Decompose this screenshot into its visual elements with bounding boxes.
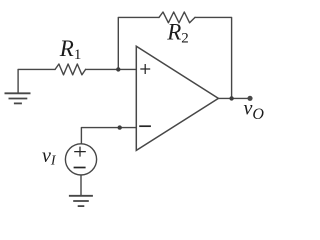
resistor R2 (159, 12, 195, 23)
wire: source bottom to ground (80, 175, 82, 196)
wire: minus input rail (81, 128, 136, 144)
source + polarity mark (74, 147, 86, 157)
ground (under vI) (69, 196, 93, 206)
node: output junction (229, 96, 233, 100)
wire: R2 to output node (right vertical) (195, 17, 232, 98)
svg-text:vI: vI (42, 145, 57, 169)
terminal vO (247, 96, 252, 101)
svg-text:R2: R2 (166, 20, 189, 47)
resistor R1 (55, 64, 86, 75)
node: minus input junction (118, 125, 122, 129)
svg-text:vO: vO (244, 98, 265, 123)
voltage source vI circle (65, 144, 96, 175)
source - polarity mark (74, 167, 86, 169)
wire: R1 to op-amp + input (86, 68, 137, 70)
wire: op-amp output to terminal (218, 97, 250, 99)
ground (left) (5, 93, 31, 103)
wire: ground to R1 (+ input rail left) (18, 69, 55, 93)
wire: feedback left vertical + top to R2 (118, 17, 159, 69)
op-amp inverting input - sign (139, 125, 151, 127)
svg-text:R1: R1 (59, 36, 82, 63)
node: feedback tap at + input (116, 67, 120, 71)
op-amp U1 triangle (136, 46, 218, 150)
op-amp noninverting input + sign (140, 64, 150, 74)
